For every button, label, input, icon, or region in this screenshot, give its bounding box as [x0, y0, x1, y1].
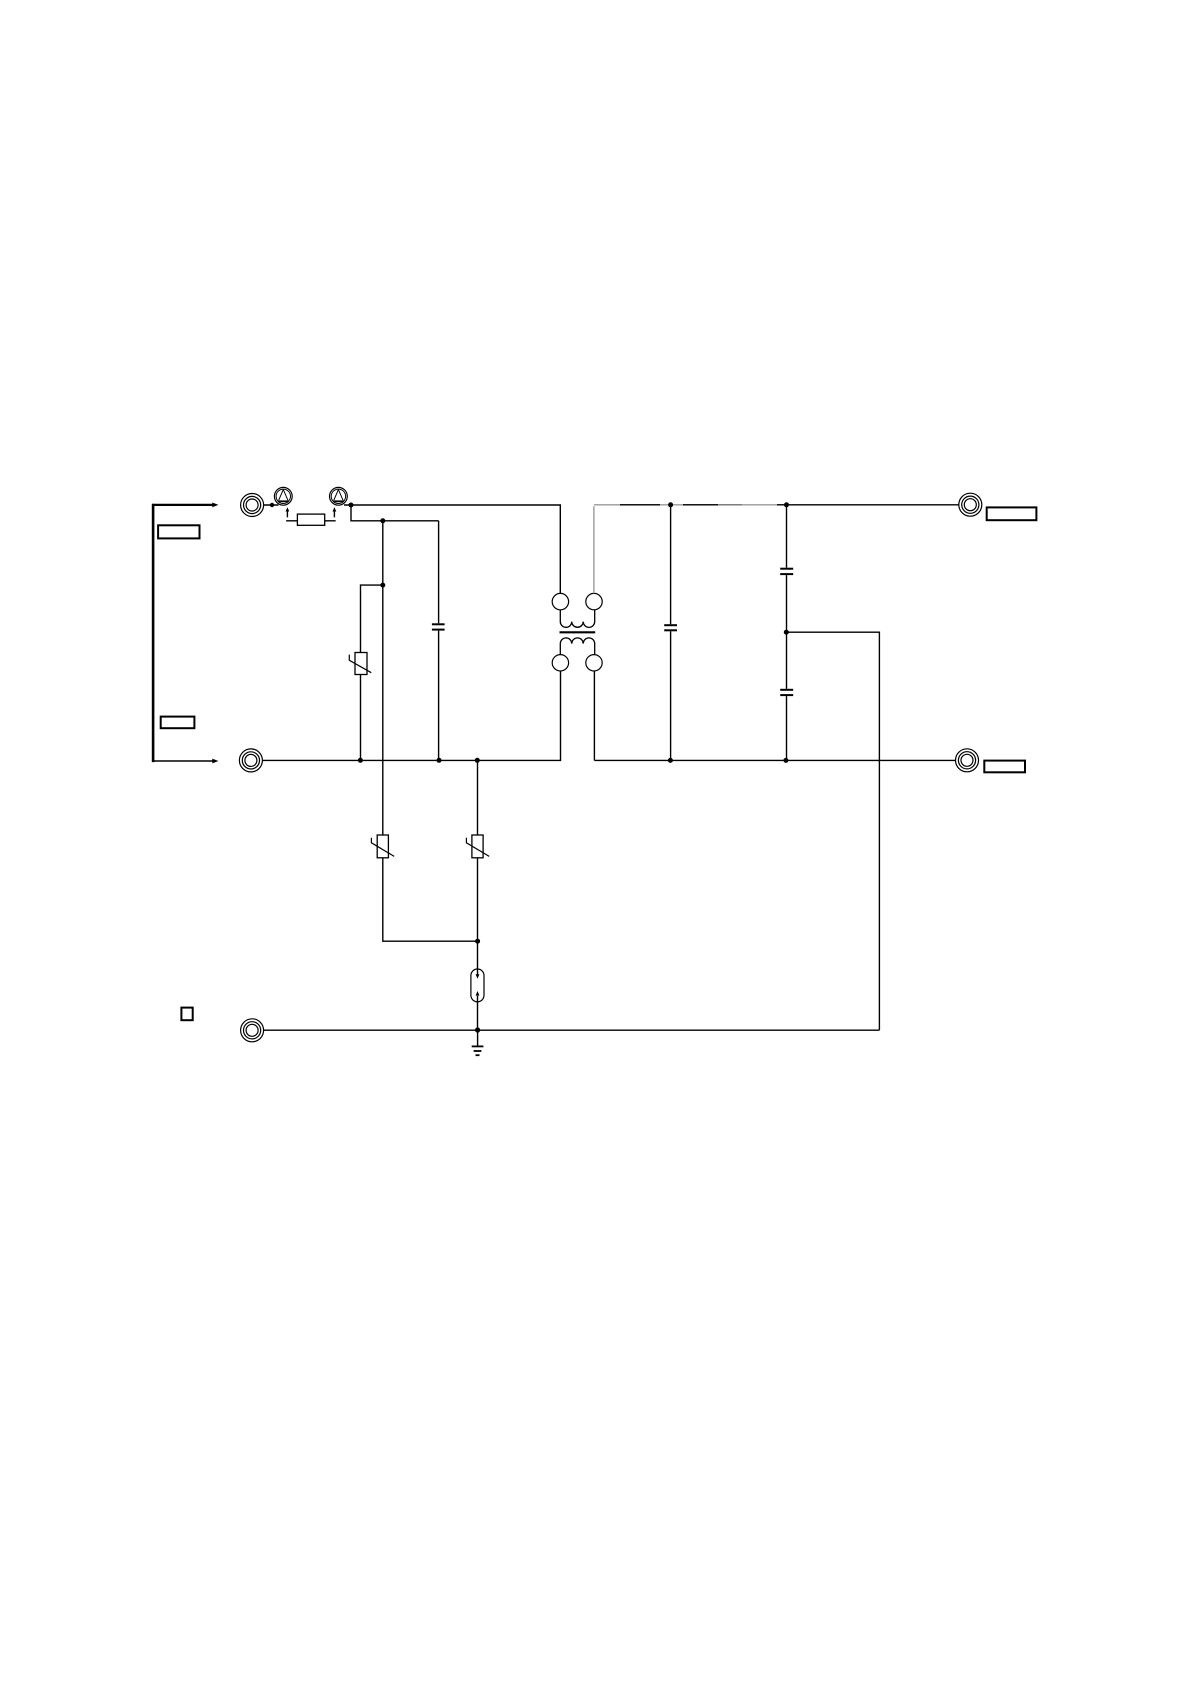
node junction on bus — [668, 758, 673, 763]
connector J5 (ground) — [241, 1019, 264, 1042]
connector J1 (AC live in) — [241, 494, 264, 517]
node junction — [668, 502, 673, 507]
bracket left pointer group — [152, 504, 155, 762]
wire live vertical to varistor net — [382, 521, 384, 835]
pin circle bottom-left — [552, 655, 568, 671]
varistor V2 (on live) — [371, 835, 394, 858]
capacitor C3 (Y-cap top) — [780, 505, 793, 632]
connector J3 (line out) — [959, 493, 982, 516]
node arrow to L connector — [212, 503, 218, 508]
node junction — [380, 583, 385, 588]
node junction on bus — [437, 758, 442, 763]
small square marker — [181, 1008, 192, 1021]
varistor V3 (on neutral) — [466, 835, 489, 858]
surge arrester SA1 — [471, 969, 484, 1002]
fuse F1 — [286, 514, 336, 525]
wire — [264, 504, 351, 506]
wire Y-cap midpoint to chassis — [786, 632, 879, 1030]
wire — [360, 675, 362, 761]
winding primary — [560, 610, 594, 628]
wire neutral bus left — [263, 671, 561, 761]
ground — [472, 1030, 484, 1055]
safety symbol 2 — [330, 487, 348, 505]
node junction — [475, 1027, 480, 1032]
wire varistor join — [383, 858, 478, 941]
capacitor C1 (X-cap) — [432, 521, 445, 761]
capacitor C2 (X-cap) — [664, 505, 677, 761]
wire neutral bus right — [594, 671, 955, 761]
wire live top — [351, 505, 560, 593]
label box 1 — [158, 525, 199, 538]
wire fuse output drop — [351, 505, 439, 521]
wire ground bus — [264, 1029, 880, 1031]
wire — [787, 504, 959, 506]
wire varistor V3 top — [477, 760, 479, 835]
node junction — [380, 518, 385, 523]
wire dark dashes on gray — [620, 504, 787, 506]
connector J2 (AC neutral in) — [239, 749, 262, 772]
wire gray secondary top — [594, 505, 787, 594]
node junction on bus — [783, 758, 788, 763]
label box 3 — [987, 507, 1037, 520]
label box 2 — [161, 717, 195, 729]
wire — [152, 504, 213, 506]
capacitor C4 (Y-cap bottom) — [780, 632, 793, 760]
pin circle top-right — [586, 593, 602, 609]
node junction on bus — [475, 758, 480, 763]
line filter T1 — [552, 593, 602, 671]
varistor V1 — [349, 653, 371, 675]
wire dark dash on gray — [718, 504, 742, 506]
wire — [477, 1002, 479, 1030]
node junction on bus — [358, 758, 363, 763]
caution arrow 2 — [333, 507, 337, 517]
pin circle bottom-right — [586, 655, 602, 671]
node junction dot — [270, 503, 274, 507]
wire varistor V1 branch — [361, 585, 383, 652]
wire — [152, 504, 155, 762]
label box 4 — [984, 761, 1025, 773]
node junction midpoint — [784, 630, 789, 635]
winding secondary — [560, 638, 594, 655]
pin circle top-left — [552, 593, 568, 609]
wire — [152, 760, 213, 762]
safety symbol 1 — [274, 487, 292, 505]
node junction after fuse — [349, 503, 354, 508]
connector J4 (neutral out) — [956, 749, 979, 772]
caution arrow 1 — [286, 507, 290, 517]
node junction — [475, 939, 480, 944]
node arrow to N connector — [212, 759, 218, 764]
wire — [477, 858, 479, 975]
core — [560, 631, 596, 633]
node junction — [784, 502, 789, 507]
